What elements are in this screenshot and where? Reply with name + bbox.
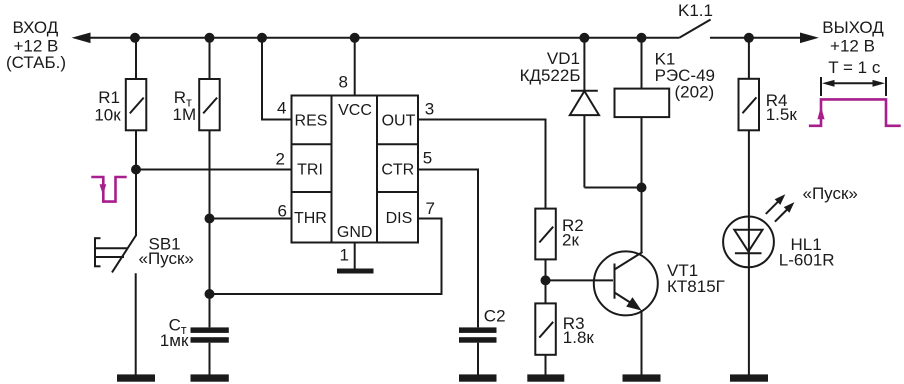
resistor R3 [535,303,556,374]
ground VT1 emitter [623,374,661,381]
svg-text:8: 8 [339,73,348,92]
svg-text:+12 В: +12 В [830,36,875,55]
svg-text:C2: C2 [484,307,506,326]
junction RT THR [205,214,215,224]
svg-text:VCC: VCC [338,102,372,119]
svg-text:1M: 1M [173,105,197,124]
junction rail RES [257,33,267,43]
label R2 2к [562,216,584,250]
resistor R2 [535,209,556,304]
svg-text:«Пуск»: «Пуск» [803,184,858,203]
label SB1 «Пуск» [139,235,194,268]
LED light arrows [766,194,795,221]
switch SB1 (push button) [94,235,136,375]
diode VD1 [570,38,642,188]
svg-text:THR: THR [294,210,327,227]
svg-text:1.8к: 1.8к [563,328,595,347]
capacitor C2 [459,327,497,374]
resistor R4 [739,38,760,218]
junction rail RT [205,33,215,43]
svg-text:2к: 2к [562,231,579,250]
svg-text:GND: GND [337,224,373,241]
wire DIS pin7 to CT node [210,219,442,295]
svg-text:4: 4 [277,99,286,118]
svg-text:RES: RES [295,113,328,130]
svg-text:(202): (202) [675,83,715,102]
ground pin1 [337,269,374,274]
wire CTR pin5 to C2 [418,170,478,328]
wire OUT pin3 to R2 [418,120,546,209]
transistor VT1 [546,251,658,374]
svg-text:КТ815Г: КТ815Г [667,277,725,296]
capacitor CT [191,327,229,374]
svg-text:3: 3 [425,100,434,119]
node output label ВЫХОД +12 В [822,18,884,56]
svg-text:K1.1: K1.1 [678,1,713,20]
ground C2 [459,374,497,381]
label R1 10к [94,88,121,125]
svg-text:TRI: TRI [297,162,323,179]
LED HL1 [723,217,774,375]
node input label ВХОД +12 В (СТАБ.) [6,18,66,72]
trigger pulse waveform (magenta) near TRI [91,177,126,202]
wire THR pin6 [210,218,292,220]
svg-text:1: 1 [340,246,349,265]
svg-text:7: 7 [426,199,435,218]
svg-text:1.5к: 1.5к [766,105,798,124]
svg-text:(СТАБ.): (СТАБ.) [6,53,66,72]
label RT 1M [173,88,197,124]
ground HL1 [730,374,768,381]
svg-text:ВЫХОД: ВЫХОД [822,18,884,37]
label VD1 КД522Б [520,49,581,85]
svg-text:2: 2 [276,150,285,169]
wire VCC pin8 from rail [354,38,356,96]
op-amp/timer IC body [292,96,419,243]
svg-text:ВХОД: ВХОД [13,18,59,37]
ground R3 [527,374,564,381]
svg-text:DIS: DIS [386,210,413,227]
junction rail R4 [744,33,754,43]
svg-text:OUT: OUT [382,113,416,130]
wire output rail with right arrow [710,33,819,44]
label VT1 КТ815Г [667,261,725,296]
output pulse waveform (magenta) [809,99,901,125]
wire RES pin4 from rail [262,38,292,120]
label R3 1.8к [563,314,595,347]
relay coil K1 [615,38,670,253]
svg-text:10к: 10к [94,105,121,124]
label HL1 L-601R [779,235,835,269]
junction RT DIS CT [205,289,215,299]
ground CT [191,374,229,381]
junction rail K1 [637,33,647,43]
svg-text:КД522Б: КД522Б [520,66,581,85]
resistor RT [199,38,220,327]
wire GND pin1 [354,243,356,270]
resistor R1 [126,38,147,236]
junction VD1 K1 collector [637,183,647,193]
wire TRI pin2 [136,169,292,171]
svg-text:«Пуск»: «Пуск» [139,249,194,268]
svg-text:6: 6 [278,202,287,221]
ground SB1 [117,374,155,381]
svg-text:L-601R: L-601R [779,250,835,269]
junction R2 R3 base [541,275,551,285]
svg-text:R1: R1 [98,88,120,107]
label CT 1мк [160,315,189,350]
relay contact K1.1 [679,20,710,38]
svg-text:1мк: 1мк [160,331,189,350]
junction rail R1 [130,33,140,43]
svg-text:5: 5 [423,149,432,168]
svg-text:T = 1 с: T = 1 с [828,58,881,77]
junction rail VCC [350,33,360,43]
label R4 1.5к [766,91,798,124]
junction rail VD1 [579,33,589,43]
junction R1 TRI SB1 [131,165,141,175]
svg-text:CTR: CTR [381,162,414,179]
label K1 РЭС-49 (202) [655,50,715,102]
wire +12V top rail with left input arrow [72,33,680,44]
dimension arrows for T [821,77,886,96]
